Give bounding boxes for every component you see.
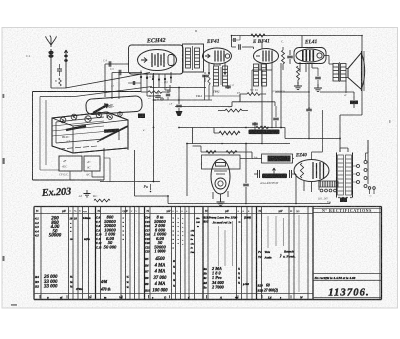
osc extra parts xyxy=(166,94,170,95)
cap C24 xyxy=(245,144,247,184)
grid stopper parts xyxy=(202,75,208,77)
det drop wires xyxy=(240,64,260,102)
cathode resistor xyxy=(297,66,300,80)
tuner left wires xyxy=(40,97,59,171)
power transformer T4 xyxy=(337,153,353,198)
ECH42 pin blobs xyxy=(140,76,142,78)
resistor heater xyxy=(94,199,110,202)
terminal TB xyxy=(340,198,347,203)
voltage selector contacts xyxy=(357,165,360,168)
EM4 grid wire xyxy=(193,146,202,152)
ground 46 xyxy=(86,190,88,193)
EBF41 pins xyxy=(260,63,272,70)
wire to chassis xyxy=(105,64,112,99)
tube EBF41 xyxy=(254,49,279,64)
bottom left wires xyxy=(104,158,110,182)
mains switch xyxy=(368,187,371,190)
dial bar xyxy=(66,126,86,130)
tone switch block xyxy=(262,154,293,163)
grid cap C5 xyxy=(112,72,142,74)
wire y106 xyxy=(175,102,275,107)
detector parts xyxy=(282,50,285,64)
anode wire xyxy=(324,56,333,65)
antenna trimmer xyxy=(59,78,62,86)
chassis wires xyxy=(104,131,128,180)
speaker cone xyxy=(348,53,362,90)
antenna A xyxy=(47,38,56,89)
tube box ECH42 xyxy=(129,45,184,74)
transformer top lead xyxy=(340,148,348,152)
scan speck 3 xyxy=(11,304,17,306)
volume pot R10 xyxy=(249,130,280,135)
tone link wire xyxy=(240,158,252,160)
tuner outer loop xyxy=(33,92,141,181)
resistor R9 xyxy=(219,131,240,135)
EM4 ground xyxy=(217,198,225,205)
resistor R7 xyxy=(225,109,242,112)
osc pin wires xyxy=(147,79,170,96)
AVC bus xyxy=(179,63,285,139)
resistor R11 xyxy=(206,151,216,154)
tube EL41 xyxy=(296,49,324,62)
right frame wire xyxy=(340,36,362,153)
right frame lower xyxy=(367,140,369,184)
wire y143 xyxy=(187,143,290,145)
parts table grid xyxy=(33,207,35,300)
wire y87.5 bus xyxy=(150,87,206,89)
scan speck 1 xyxy=(3,158,5,164)
IF transformer T1 xyxy=(183,44,204,72)
pointer diagonal xyxy=(100,126,128,140)
wire diagonal osc lead xyxy=(75,87,152,97)
chassis body xyxy=(52,112,128,153)
el41 screen cap xyxy=(312,68,318,76)
cathode ground xyxy=(294,82,302,89)
mains plug block xyxy=(318,181,320,187)
osc components xyxy=(141,79,148,92)
top HT bus xyxy=(232,35,363,37)
vertical drop x192 xyxy=(192,128,194,144)
tuning pointer arrow xyxy=(93,105,108,114)
volume potentiometer xyxy=(262,174,287,179)
cap C8 with ground xyxy=(178,88,180,105)
tuner top face xyxy=(86,96,143,115)
wire y100 xyxy=(155,99,212,101)
grid cap C4 xyxy=(105,63,129,65)
connector block xyxy=(138,114,145,119)
chassis outline bold xyxy=(52,112,128,153)
tube EM4 xyxy=(211,159,230,194)
tube EZ40 xyxy=(294,160,329,182)
spk frame xyxy=(363,51,365,91)
trimmer box 2 xyxy=(84,156,100,171)
if stage extra wires xyxy=(205,75,214,100)
B+ wire xyxy=(285,138,340,140)
pot side caps xyxy=(258,170,292,178)
EL41 riser xyxy=(301,36,303,48)
EF41 pins xyxy=(209,63,225,75)
drop x252 xyxy=(251,152,253,159)
socket crosses xyxy=(61,114,112,122)
speaker top lead xyxy=(320,91,346,93)
osc cap C9 xyxy=(155,96,161,98)
vertical x134 xyxy=(134,150,136,196)
bottom bus xyxy=(135,196,331,204)
resistor R8 xyxy=(247,93,260,96)
output transformer T5 xyxy=(333,64,339,82)
filter cap C30 xyxy=(306,109,312,111)
tube ECH42 xyxy=(138,50,177,71)
chassis hatch xyxy=(59,146,97,149)
junction dots2 xyxy=(178,87,180,89)
wire antenna bus xyxy=(40,88,75,97)
cap near riser xyxy=(234,38,235,42)
transformer terminal dots xyxy=(338,197,340,199)
tube box EL41 xyxy=(294,48,326,64)
chassis front shading xyxy=(52,121,104,136)
avc resistor xyxy=(256,126,268,129)
detector drop wires xyxy=(260,70,272,144)
IF transformer T2 xyxy=(254,64,259,86)
scan speck 6 xyxy=(389,120,391,123)
EBF41 riser xyxy=(261,41,263,49)
EF41 pin blobs xyxy=(208,72,210,74)
tube EF41 xyxy=(203,48,232,64)
EZ40 HT lead xyxy=(312,139,323,160)
trimmer leads xyxy=(70,171,104,180)
shield box xyxy=(202,155,241,169)
vertical drop x322 xyxy=(322,110,324,139)
EL41 pins xyxy=(300,62,312,72)
selector wire xyxy=(366,140,369,161)
bus riser xyxy=(232,36,237,48)
resistor R6 on bus xyxy=(251,34,265,37)
EZ40 pins xyxy=(304,181,319,193)
ECH42 pins xyxy=(141,71,171,80)
coil pair T3 xyxy=(214,66,219,86)
grid leak parts xyxy=(128,82,141,84)
decoupling cap blob xyxy=(353,92,355,100)
cap C17 xyxy=(227,85,229,89)
scan speck 2 xyxy=(3,256,5,261)
trimmer box 1 xyxy=(59,156,82,171)
sec cap xyxy=(273,118,279,120)
wire diagonal grid lead xyxy=(66,73,151,89)
chassis sockets xyxy=(60,117,66,123)
scan speck 5 xyxy=(195,30,197,32)
left drop wire xyxy=(186,144,188,197)
tone wires xyxy=(252,158,294,160)
EM4 pins xyxy=(213,191,228,201)
antenna coupling cap xyxy=(57,69,62,71)
chassis inner line xyxy=(56,117,104,143)
earth lead xyxy=(64,50,67,88)
scan speck 4 xyxy=(3,94,5,98)
wire y152 xyxy=(201,151,252,153)
vertical x153 xyxy=(153,73,155,182)
resistor R12 xyxy=(226,151,237,154)
coupling cap C xyxy=(239,44,241,50)
wire x119 drop xyxy=(118,73,120,100)
wire y181 xyxy=(100,181,160,183)
mid frame wire xyxy=(308,63,310,108)
chassis slot xyxy=(104,128,119,132)
speaker leads xyxy=(346,81,354,92)
